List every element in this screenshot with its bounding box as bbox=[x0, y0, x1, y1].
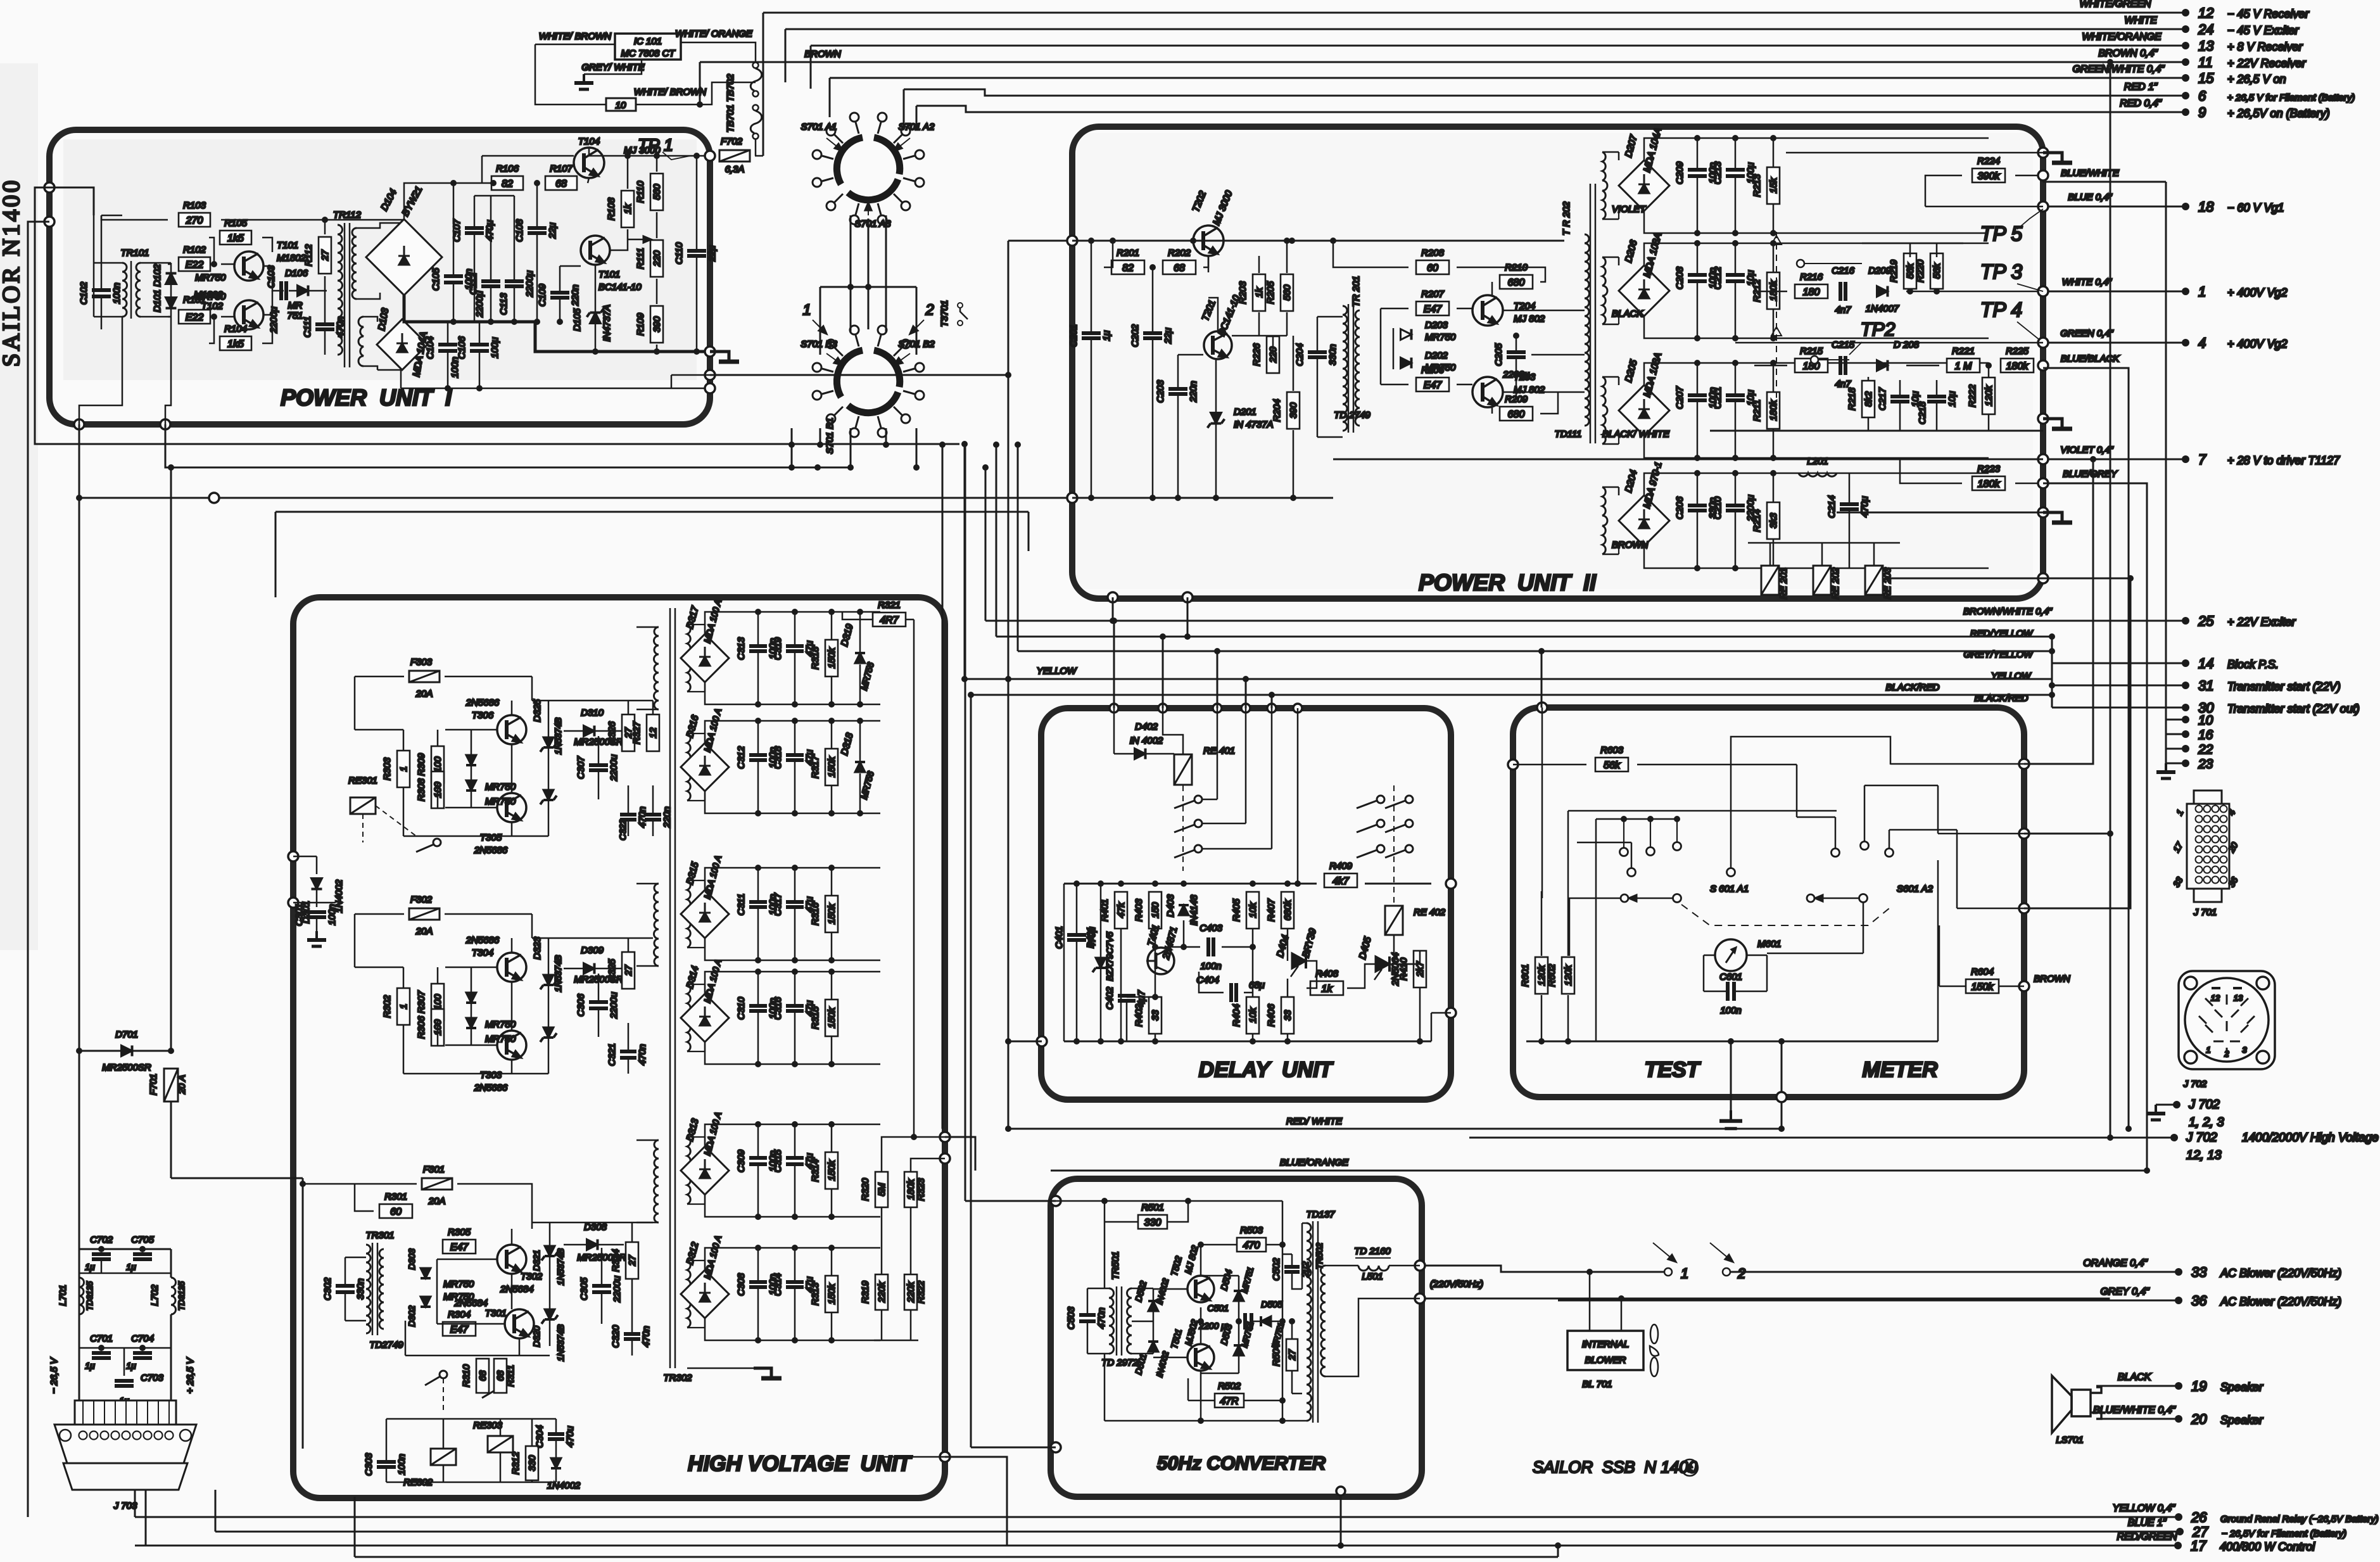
svg-text:C217: C217 bbox=[1877, 387, 1888, 410]
svg-text:2N5684: 2N5684 bbox=[500, 1284, 534, 1295]
svg-text:C501: C501 bbox=[1208, 1303, 1229, 1313]
svg-text:47k: 47k bbox=[1116, 901, 1127, 918]
wire left down bbox=[1104, 1201, 1106, 1288]
svg-text:Speaker: Speaker bbox=[2220, 1414, 2263, 1426]
connector J701 pin bbox=[2196, 867, 2203, 873]
connector J703 pin lead bbox=[104, 1400, 105, 1425]
wire stub bus bbox=[2165, 720, 2167, 763]
wire bbox=[1091, 339, 1092, 498]
wire IC101 left bbox=[535, 44, 615, 46]
resistor R218 bbox=[1847, 381, 1875, 417]
svg-text:M1802: M1802 bbox=[277, 253, 307, 264]
wire bbox=[757, 1288, 759, 1340]
wire bbox=[794, 721, 796, 754]
wire S701A-S701B a bbox=[850, 215, 852, 333]
svg-text:220n: 220n bbox=[662, 806, 673, 828]
wire bbox=[519, 1338, 521, 1356]
svg-text:TD 2749: TD 2749 bbox=[1334, 410, 1370, 421]
diode D307 MR750 bbox=[466, 755, 476, 765]
wire bbox=[447, 351, 449, 388]
wire cap tops bbox=[474, 195, 514, 197]
wire bbox=[1381, 384, 1408, 386]
svg-text:1: 1 bbox=[1681, 1266, 1688, 1281]
wire bbox=[364, 317, 377, 322]
svg-text:C110: C110 bbox=[674, 242, 685, 264]
svg-text:C701: C701 bbox=[90, 1333, 113, 1344]
bridge rectifier D316 MDA 100 A bbox=[681, 743, 729, 791]
wire bbox=[757, 908, 759, 960]
wire bbox=[1697, 176, 1699, 233]
wire R104 right bbox=[262, 329, 272, 343]
wire vertical x1447 bbox=[916, 106, 918, 130]
wire to R208 bbox=[1333, 241, 1408, 267]
diode D209 IN4007 bbox=[1877, 286, 1888, 297]
resistor R210 bbox=[1500, 262, 1533, 289]
connector J703 pin bbox=[122, 1432, 130, 1440]
wire bbox=[1602, 376, 1619, 378]
wire bbox=[1735, 138, 1737, 170]
wire to HV unit bbox=[171, 1178, 303, 1179]
terminal DELAY top x2049 bbox=[1293, 704, 1302, 713]
wire bbox=[1178, 354, 1203, 356]
resistor R216 bbox=[1795, 272, 1828, 298]
svg-text:AC Blower (220V/50Hz): AC Blower (220V/50Hz) bbox=[2220, 1295, 2341, 1308]
wire bbox=[1152, 267, 1154, 333]
fuse F302 20A bbox=[409, 908, 440, 920]
connector J703 pin lead bbox=[136, 1400, 137, 1425]
svg-text:1, 2, 3: 1, 2, 3 bbox=[2189, 1115, 2224, 1129]
svg-text:M1802: M1802 bbox=[194, 289, 224, 300]
svg-text:C215: C215 bbox=[1832, 340, 1855, 350]
svg-text:56k: 56k bbox=[1905, 262, 1916, 279]
resistor R101 bbox=[179, 295, 210, 324]
svg-text:R208: R208 bbox=[1421, 248, 1445, 258]
svg-text:R602: R602 bbox=[1547, 963, 1557, 987]
wire bbox=[471, 791, 472, 808]
svg-text:R102: R102 bbox=[183, 244, 206, 255]
wire relay top bbox=[1821, 543, 1823, 566]
svg-text:R309: R309 bbox=[416, 752, 427, 776]
wire bbox=[1431, 1012, 1451, 1014]
svg-text:MR750: MR750 bbox=[485, 796, 516, 807]
wire term to R320 bbox=[882, 1137, 945, 1172]
svg-text:L701: L701 bbox=[58, 1285, 68, 1305]
wire bbox=[794, 972, 796, 1005]
connector J702 pin bbox=[2226, 1048, 2228, 1058]
relay RE303 bbox=[488, 1436, 513, 1452]
wire to terminal 4 bbox=[2043, 342, 2186, 344]
svg-text:R223: R223 bbox=[1977, 464, 2001, 474]
svg-text:R222: R222 bbox=[1967, 384, 1978, 407]
svg-text:C306: C306 bbox=[576, 993, 586, 1017]
terminal HV left a bbox=[288, 851, 298, 861]
resistor R321 bbox=[873, 600, 906, 626]
svg-text:L201: L201 bbox=[1807, 456, 1828, 467]
transformer TR202 core bbox=[1590, 184, 1595, 443]
wire bbox=[1232, 335, 1287, 337]
wire filter top bbox=[79, 1248, 171, 1250]
terminal HV right b bbox=[940, 1452, 950, 1462]
wire bbox=[704, 733, 706, 743]
svg-text:WHITE/GREEN: WHITE/GREEN bbox=[2080, 0, 2151, 10]
connector J701 pin bbox=[2220, 816, 2227, 823]
wire bbox=[1389, 1265, 1420, 1267]
svg-text:180k: 180k bbox=[1768, 399, 1779, 421]
svg-text:RE301: RE301 bbox=[348, 775, 377, 786]
svg-text:R501: R501 bbox=[1141, 1202, 1164, 1213]
wire bbox=[141, 262, 171, 264]
wire bbox=[1939, 925, 1940, 986]
wire bbox=[1899, 380, 1901, 396]
svg-text:1N5374B: 1N5374B bbox=[553, 955, 563, 992]
svg-text:1k: 1k bbox=[623, 203, 633, 214]
wire S701B down d bbox=[885, 428, 887, 445]
wire block top bbox=[705, 972, 880, 994]
box 10 bbox=[606, 98, 636, 111]
svg-text:YELLOW: YELLOW bbox=[1037, 666, 1077, 676]
wire bbox=[595, 265, 597, 312]
svg-text:TEST: TEST bbox=[1645, 1058, 1702, 1082]
wire bbox=[1087, 1288, 1109, 1290]
wire C205 bottom bbox=[1516, 359, 1517, 399]
capacitor C310 100n bbox=[736, 996, 778, 1020]
svg-text:MJ 802: MJ 802 bbox=[1514, 314, 1545, 324]
svg-text:D310: D310 bbox=[581, 708, 604, 718]
wire bbox=[168, 316, 171, 318]
svg-text:− 60 V Vg1: − 60 V Vg1 bbox=[2227, 201, 2284, 214]
wire RED/YELLOW long bbox=[996, 636, 2052, 638]
winding D314 bbox=[687, 984, 692, 1051]
wire y786 long bbox=[79, 497, 1072, 499]
svg-text:BL 701: BL 701 bbox=[1582, 1379, 1612, 1390]
wire bbox=[215, 1490, 217, 1532]
svg-text:2: 2 bbox=[925, 302, 934, 319]
connector J702 pin bbox=[2213, 1041, 2224, 1043]
wire bbox=[831, 933, 833, 960]
inductor L201 bbox=[1799, 473, 1837, 476]
wire J702 gnd bbox=[2156, 1104, 2177, 1106]
svg-text:150k: 150k bbox=[826, 647, 837, 668]
svg-text:C201: C201 bbox=[1068, 324, 1079, 347]
transistor T101 BC141-10 bbox=[581, 236, 610, 265]
wire bbox=[831, 677, 833, 704]
wire bbox=[548, 747, 550, 790]
svg-text:10k: 10k bbox=[1248, 901, 1258, 918]
svg-text:27: 27 bbox=[320, 250, 331, 261]
wire winding top stub bbox=[687, 984, 705, 985]
ground under stubs bbox=[2156, 763, 2175, 778]
svg-text:R203: R203 bbox=[1237, 281, 1248, 304]
wire bbox=[757, 1124, 759, 1158]
svg-text:R601: R601 bbox=[1520, 964, 1531, 987]
svg-text:220n: 220n bbox=[1188, 381, 1199, 402]
svg-text:12: 12 bbox=[2211, 993, 2220, 1003]
wire 220V a bbox=[1425, 1266, 1664, 1272]
svg-text:TP 4: TP 4 bbox=[1980, 298, 2022, 321]
svg-text:TD 2160: TD 2160 bbox=[1354, 1246, 1391, 1257]
svg-text:150k: 150k bbox=[826, 1006, 837, 1028]
wire T502 collector bbox=[1200, 1245, 1202, 1276]
svg-text:R312: R312 bbox=[510, 1451, 521, 1475]
svg-text:TP 5: TP 5 bbox=[1980, 222, 2023, 245]
ground IC101 bbox=[574, 74, 593, 89]
wire contact1 bbox=[1804, 263, 1862, 264]
wire bbox=[564, 968, 583, 970]
svg-text:33: 33 bbox=[1282, 1010, 1293, 1020]
diode D403 1N4148 bbox=[1179, 905, 1189, 915]
terminal TM right 1 bbox=[2019, 759, 2029, 769]
wire F701 down bbox=[170, 1102, 172, 1178]
resistor R318 bbox=[810, 640, 838, 676]
svg-text:6,3A: 6,3A bbox=[725, 164, 745, 175]
TP2 pointer bbox=[1849, 342, 1862, 355]
wire TM3 up bbox=[2024, 578, 2130, 908]
svg-text:TR302: TR302 bbox=[663, 1373, 692, 1383]
wire bbox=[511, 822, 513, 836]
wire diode column bbox=[170, 263, 172, 317]
svg-text:D209: D209 bbox=[1868, 265, 1892, 276]
wire bbox=[1271, 1321, 1282, 1323]
svg-text:RE 401: RE 401 bbox=[1203, 746, 1235, 756]
wire R104 left bbox=[209, 317, 214, 343]
wire bbox=[1491, 282, 1493, 295]
wire bbox=[1868, 418, 1870, 431]
wire D701 bbox=[79, 1050, 171, 1052]
wire bbox=[1266, 1244, 1282, 1246]
svg-text:5M: 5M bbox=[877, 1183, 887, 1196]
wire bbox=[1286, 241, 1288, 273]
wire bbox=[1200, 1321, 1202, 1344]
svg-text:GREY/ WHITE: GREY/ WHITE bbox=[581, 62, 645, 73]
svg-text:T302: T302 bbox=[521, 1271, 543, 1282]
switch pointer circle S601A2 bbox=[1807, 894, 1814, 902]
wire bbox=[859, 664, 861, 704]
svg-text:330: 330 bbox=[1144, 1217, 1162, 1228]
switch pointer arrow S601A2 bbox=[1815, 895, 1859, 901]
wire block bottom bbox=[705, 1318, 880, 1340]
wire YELLOW long bbox=[965, 678, 2052, 680]
wire to DELAY c bbox=[1217, 651, 1218, 708]
wire bbox=[1127, 996, 1155, 998]
wire winding bottom stub bbox=[687, 947, 705, 948]
svg-text:C703: C703 bbox=[141, 1373, 164, 1383]
svg-text:390k: 390k bbox=[1978, 171, 2001, 182]
wire bbox=[794, 1012, 796, 1064]
wire bbox=[79, 1273, 171, 1274]
wire bbox=[101, 215, 122, 217]
wire to terminal 25 bbox=[2052, 620, 2186, 622]
svg-text:390: 390 bbox=[652, 316, 662, 333]
svg-text:L702: L702 bbox=[149, 1285, 160, 1306]
wire x1533 long bbox=[970, 695, 972, 1447]
wire to terminal 7 bbox=[2043, 459, 2186, 460]
wire bbox=[671, 374, 710, 376]
wire bbox=[1258, 312, 1260, 336]
wire R224 left bbox=[1925, 175, 1962, 206]
bridge rectifier D204 MDA 970-1 bbox=[1619, 495, 1669, 546]
svg-text:470n: 470n bbox=[641, 1326, 652, 1347]
wire bbox=[1602, 219, 1619, 220]
svg-text:GREEN/WHITE 0,4”: GREEN/WHITE 0,4” bbox=[2073, 64, 2165, 75]
wire x1524 long bbox=[965, 444, 966, 1201]
wire bbox=[1697, 473, 1699, 505]
relay RE301 bbox=[350, 797, 376, 814]
wire bbox=[831, 1248, 833, 1275]
wire bbox=[1956, 830, 1958, 908]
wire x478 bbox=[302, 1178, 304, 1449]
terminal HV right a bbox=[940, 1132, 950, 1142]
svg-text:MR2500SR: MR2500SR bbox=[102, 1062, 151, 1073]
wire bbox=[1076, 884, 1078, 934]
wire BLUE bbox=[1925, 206, 2043, 208]
wire bbox=[1906, 365, 1939, 367]
svg-text:R221: R221 bbox=[1952, 346, 1975, 357]
svg-text:2N5686: 2N5686 bbox=[465, 935, 500, 946]
transistor T306 bbox=[497, 715, 526, 744]
TP4 pointer bbox=[2017, 322, 2043, 343]
svg-text:L501: L501 bbox=[1362, 1271, 1383, 1282]
svg-text:9: 9 bbox=[2198, 105, 2206, 120]
wire bbox=[598, 974, 600, 1002]
switch contact S601A2 bbox=[1885, 849, 1894, 857]
wire bbox=[757, 1012, 759, 1064]
svg-text:330n: 330n bbox=[1327, 344, 1338, 365]
svg-text:+ 26,5 V on: + 26,5 V on bbox=[2227, 73, 2286, 86]
wire bbox=[1936, 243, 1938, 257]
wire bbox=[94, 316, 122, 318]
transformer winding TR202 sec1 bbox=[1602, 152, 1607, 219]
svg-text:C210: C210 bbox=[1712, 496, 1723, 519]
svg-text:2200μ: 2200μ bbox=[269, 307, 279, 334]
transistor T301 2N5684 bbox=[505, 1309, 534, 1338]
fuse F301 20A bbox=[422, 1178, 452, 1190]
svg-text:BLUE 0,4”: BLUE 0,4” bbox=[2068, 192, 2112, 203]
switch contact RE301 bbox=[416, 839, 441, 852]
wire C105 bottom bbox=[453, 284, 455, 322]
wire bbox=[1317, 358, 1319, 437]
svg-text:2N5686: 2N5686 bbox=[474, 845, 508, 856]
wire vertical x1523 bbox=[964, 444, 966, 679]
wire to DELAY d bbox=[1245, 679, 1247, 708]
wire F301 right bbox=[457, 1184, 532, 1229]
svg-text:150: 150 bbox=[1150, 902, 1161, 918]
connector J701 pin bbox=[2204, 877, 2211, 884]
wire y701 long bbox=[35, 187, 959, 444]
terminal CONV right a bbox=[1415, 1260, 1425, 1271]
svg-text:150k: 150k bbox=[826, 1283, 837, 1304]
wire bbox=[1114, 753, 1174, 755]
wire bbox=[1697, 363, 1699, 395]
connector J701 pin bbox=[2196, 856, 2203, 863]
svg-text:C404: C404 bbox=[1196, 975, 1219, 986]
connector J703 pin lead bbox=[115, 1400, 116, 1425]
svg-text:60: 60 bbox=[1427, 263, 1438, 274]
wire bbox=[1063, 884, 1065, 1041]
wire winding top stub bbox=[687, 880, 705, 881]
wire primary1 bottom bbox=[636, 709, 659, 711]
wire bbox=[656, 279, 658, 304]
wire bbox=[794, 1288, 796, 1340]
wire bbox=[511, 1274, 513, 1309]
svg-text:TR101: TR101 bbox=[120, 248, 149, 258]
wire bbox=[1245, 708, 1247, 823]
switch contact S601A1 bbox=[1620, 848, 1628, 856]
wire box10 right bbox=[636, 82, 756, 105]
wire bbox=[627, 156, 629, 189]
wire bbox=[141, 316, 171, 318]
resistor R402 bbox=[1134, 997, 1162, 1034]
wire bbox=[1577, 842, 1631, 844]
capacitor C213 100&#956; bbox=[1712, 161, 1756, 184]
svg-text:WHITE/ BROWN: WHITE/ BROWN bbox=[634, 87, 706, 98]
svg-text:120k: 120k bbox=[1536, 964, 1547, 986]
wire R321 right bbox=[906, 619, 914, 621]
svg-text:1: 1 bbox=[2206, 1045, 2210, 1055]
wire block bottom bbox=[705, 791, 880, 813]
svg-text:R226: R226 bbox=[1251, 343, 1262, 366]
diode D208 IN4007 bbox=[1877, 360, 1888, 371]
wire PU2 bottom rail bbox=[1072, 497, 1333, 499]
wire TM ground stem bbox=[1730, 1041, 1732, 1110]
wire bbox=[345, 1257, 346, 1286]
svg-text:15: 15 bbox=[2198, 70, 2214, 86]
resistor R209 bbox=[1500, 394, 1533, 421]
wire bbox=[1202, 848, 1272, 850]
svg-text:470n: 470n bbox=[637, 806, 648, 827]
resistor R109 bbox=[635, 306, 663, 343]
capacitor C701 1u bbox=[92, 1353, 111, 1358]
wire bbox=[403, 730, 405, 750]
wire block top bbox=[705, 1248, 880, 1270]
capacitor C204 330n bbox=[1294, 343, 1338, 366]
wire block top bbox=[705, 868, 880, 890]
wire bbox=[1849, 473, 1851, 504]
svg-text:C702: C702 bbox=[90, 1235, 113, 1245]
wire stub 22 bbox=[2166, 748, 2186, 750]
capacitor C110 22u bbox=[674, 242, 718, 264]
wire bbox=[1287, 979, 1289, 997]
wire bbox=[1177, 355, 1179, 388]
svg-text:+ 26,5 V: + 26,5 V bbox=[185, 1357, 196, 1394]
thyristor D405 2N5064 bbox=[1374, 956, 1389, 980]
svg-text:20A: 20A bbox=[415, 689, 433, 699]
svg-text:2: 2 bbox=[2224, 1049, 2229, 1058]
svg-text:2200u: 2200u bbox=[609, 991, 619, 1019]
wire R501 out bbox=[1167, 1201, 1188, 1222]
svg-text:220k: 220k bbox=[906, 1281, 916, 1303]
connector J701 pin bbox=[2220, 826, 2227, 833]
wire PU2 top rail bbox=[1072, 240, 1564, 242]
wire bbox=[1286, 312, 1288, 336]
switch arrow 2 bbox=[1710, 1243, 1733, 1262]
capacitor C217 10u bbox=[1877, 387, 1921, 410]
wire bbox=[437, 784, 439, 808]
connector J702 pin bbox=[2226, 994, 2228, 1005]
transformer TR101 core bbox=[130, 261, 132, 319]
wire D103 bottom bbox=[377, 370, 401, 388]
wire S701B down c bbox=[850, 428, 852, 467]
svg-text:C315: C315 bbox=[773, 1149, 783, 1172]
svg-text:MR750: MR750 bbox=[195, 272, 226, 283]
svg-text:10: 10 bbox=[616, 100, 626, 111]
svg-text:2200 μ: 2200 μ bbox=[1198, 1321, 1226, 1331]
svg-text:TB701 TB702: TB701 TB702 bbox=[725, 73, 736, 132]
wire bbox=[1773, 138, 1775, 167]
svg-text:470μ: 470μ bbox=[1859, 496, 1870, 517]
svg-text:J 702: J 702 bbox=[2186, 1131, 2217, 1145]
wire bbox=[1113, 708, 1115, 754]
wire bbox=[910, 1310, 912, 1340]
